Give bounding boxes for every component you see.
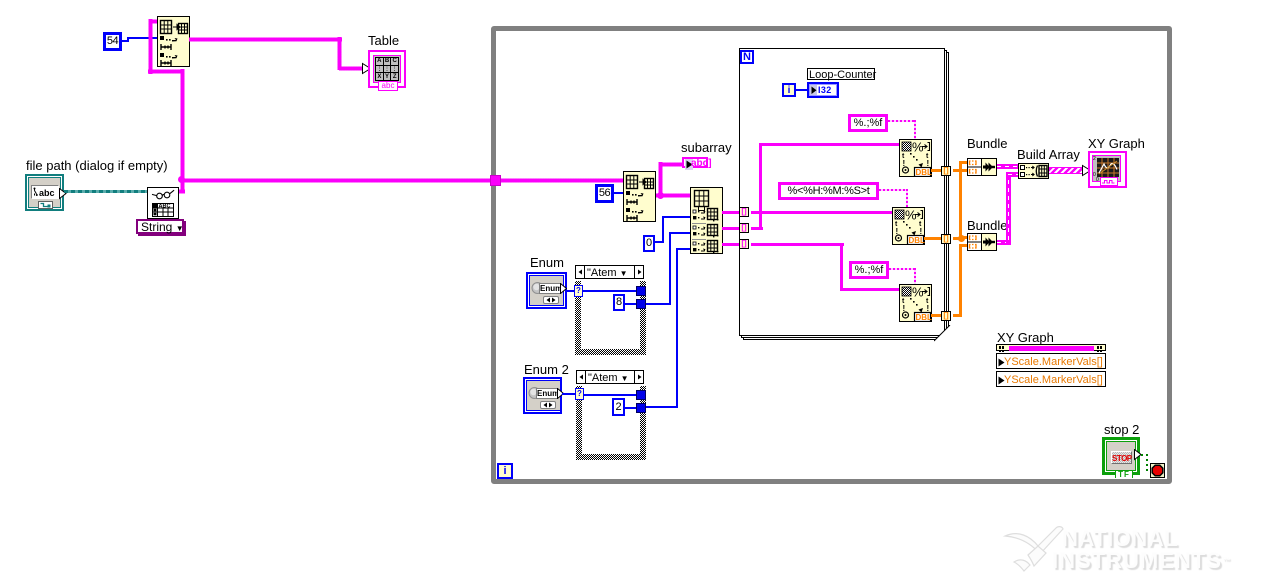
label Enum 2 bbox=[524, 363, 569, 376]
NI logo text INSTRUMENTS bbox=[1052, 550, 1231, 571]
for loop iteration terminal i bbox=[782, 83, 796, 97]
wire: Array Subset output to Table bbox=[189, 37, 342, 42]
bundle node 1 bbox=[967, 158, 997, 176]
scan from string node 2 bbox=[892, 207, 925, 245]
indicator XY Graph bbox=[1088, 151, 1127, 188]
wire: stop 2 to loop condition bbox=[1141, 454, 1148, 456]
wire: Enum 2 to case selector bbox=[562, 393, 575, 395]
label Table bbox=[368, 34, 399, 47]
build array node bbox=[1018, 163, 1049, 179]
for loop stacked frame 3 bbox=[743, 52, 949, 340]
wire: Bundle 1 to Build Array bbox=[997, 164, 1018, 169]
wire: tunnel to Array Subset 2 bbox=[501, 178, 623, 183]
svg-text:abc: abc bbox=[39, 188, 55, 198]
wire: spreadsheet VI output stub bbox=[177, 189, 185, 194]
wire: case 1 tunnel to index array bbox=[646, 303, 671, 305]
wire: file path to Read From Spreadsheet VI bbox=[64, 190, 147, 193]
wire: format 2 to Scan 2 bbox=[879, 189, 908, 191]
wire: Build Array to XY Graph (array of clusters) bbox=[1049, 167, 1084, 174]
constant 2 bbox=[612, 398, 625, 416]
wire: format 3 to Scan 3 bbox=[889, 268, 916, 270]
svg-text:ABC: ABC bbox=[159, 204, 171, 210]
NI logo eagle bbox=[1000, 522, 1075, 573]
constant 8 bbox=[613, 294, 625, 311]
case 2 tunnels bbox=[636, 390, 646, 400]
svg-text:!: ! bbox=[920, 227, 923, 236]
case structure 2 bbox=[576, 370, 646, 460]
index array node bbox=[690, 187, 723, 254]
constant 56 bbox=[595, 184, 614, 203]
format string constant 2 bbox=[778, 182, 879, 200]
label subarray bbox=[681, 141, 732, 154]
Read From Spreadsheet File VI bbox=[147, 187, 179, 219]
control file path bbox=[25, 174, 64, 211]
wire: format 1 to Scan 1 bbox=[888, 120, 916, 122]
NI logo text NATIONAL bbox=[1062, 528, 1178, 549]
label Enum bbox=[530, 256, 564, 269]
XY Graph input arrow bbox=[1081, 164, 1092, 177]
for loop stacked frame 2 bbox=[741, 50, 947, 338]
format string constant 3 bbox=[849, 261, 889, 279]
array subset node A2 bbox=[623, 171, 656, 222]
wire: tunnel 2 up to Scan From String 1 bbox=[751, 227, 763, 230]
while loop iteration terminal i bbox=[497, 463, 513, 479]
wire: case 2 tunnel to index array bbox=[646, 406, 678, 408]
svg-text:DBL: DBL bbox=[909, 236, 926, 245]
wire: tunnel 1 to Scan From String 2 bbox=[751, 211, 892, 214]
polymorphic selector String bbox=[136, 219, 184, 234]
for loop right tunnels bbox=[941, 166, 951, 176]
constant 54 bbox=[103, 32, 122, 51]
control Enum 2 bbox=[523, 377, 562, 414]
for loop count terminal N bbox=[740, 50, 754, 64]
wire: scan2 tunnel splits to both bundles bbox=[953, 237, 962, 240]
constant 0 bbox=[643, 235, 655, 252]
wire: Scan 1 DBL to tunnel bbox=[931, 169, 942, 172]
while loop condition terminal bbox=[1150, 463, 1165, 478]
label XY Graph bbox=[1088, 137, 1145, 150]
svg-text:!: ! bbox=[927, 159, 930, 168]
wire: 56 to Array Subset 2 bbox=[614, 192, 623, 194]
wire: scan1 tunnel to Bundle 1 lower input bbox=[953, 169, 967, 172]
wire: 0 to Index Array index input bbox=[654, 241, 663, 243]
wire: Bundle 2 to Build Array bbox=[997, 240, 1011, 245]
property node XY Graph bbox=[996, 344, 1108, 389]
case structure 1 bbox=[575, 265, 646, 355]
while loop tunnel (2D string array) bbox=[490, 175, 501, 186]
junction of spreadsheet output wire bbox=[178, 176, 185, 183]
wire: Scan 2 DBL to tunnel bbox=[924, 237, 942, 240]
label stop 2 bbox=[1104, 423, 1139, 436]
svg-text:DBL: DBL bbox=[916, 313, 933, 322]
wire: 2D string array into while loop bbox=[182, 178, 498, 183]
indicator Table bbox=[368, 50, 406, 88]
wire: i to Loop-Counter indicator bbox=[796, 89, 807, 91]
for loop main frame bbox=[739, 48, 945, 336]
format string constant 1 bbox=[848, 114, 888, 132]
label Build Array bbox=[1017, 148, 1080, 161]
indicator subarray bbox=[682, 157, 708, 168]
scan from string node 3 bbox=[899, 284, 932, 322]
svg-text:DBL: DBL bbox=[916, 168, 933, 177]
label XY Graph (property node) bbox=[997, 331, 1054, 344]
case 1 internal wires bbox=[583, 290, 637, 292]
case 1 tunnels bbox=[636, 286, 646, 296]
wires: index array outputs to for loop tunnels bbox=[722, 211, 740, 214]
svg-text:!: ! bbox=[927, 304, 930, 313]
label Bundle 2 bbox=[967, 219, 1007, 232]
case 1 selector terminal bbox=[574, 285, 583, 297]
scan from string node 1 bbox=[899, 139, 932, 177]
case 2 internal wires bbox=[584, 394, 637, 396]
control Enum bbox=[526, 272, 567, 309]
bundle node 2 bbox=[967, 233, 997, 251]
wire: tunnel 3 down to Scan From String 3 bbox=[751, 243, 844, 246]
for loop folded corner bbox=[934, 325, 951, 342]
for loop left tunnels bbox=[739, 207, 749, 217]
wire: 54 to Array Subset index input bbox=[122, 40, 129, 42]
Table indicator input arrow bbox=[361, 62, 372, 75]
wire: Scan 3 DBL to tunnel bbox=[931, 314, 942, 317]
array subset node A1 (top left) bbox=[157, 16, 190, 67]
case 2 selector terminal bbox=[575, 388, 584, 400]
control stop 2 bbox=[1102, 437, 1140, 475]
wire: spreadsheet 2D array wrap-around to Array Subset input bbox=[148, 19, 153, 74]
while loop border bbox=[491, 26, 1172, 484]
indicator I32 Loop-Counter bbox=[807, 82, 839, 98]
wire: scan3 tunnel up to Bundle 2 lower input bbox=[953, 314, 962, 317]
wire: Array Subset 2 output to Index Array bbox=[656, 193, 690, 198]
wire: Enum to case selector bbox=[565, 290, 575, 292]
label file path (dialog if empty) bbox=[26, 159, 168, 172]
label Bundle bbox=[967, 137, 1007, 150]
label Loop-Counter bbox=[807, 68, 875, 80]
